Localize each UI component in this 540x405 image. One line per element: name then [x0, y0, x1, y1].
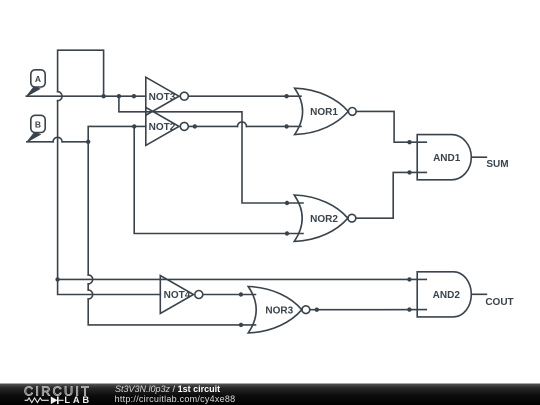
svg-text:NOR1: NOR1	[310, 107, 338, 118]
nor gate NOR2	[294, 195, 348, 241]
wire NOT2 out continue	[247, 125, 302, 127]
svg-text:COUT: COUT	[485, 297, 513, 308]
svg-text:NOT3: NOT3	[149, 92, 176, 103]
svg-text:AND2: AND2	[433, 290, 461, 301]
node AND1 top pin	[407, 140, 411, 144]
inverter NOT4	[160, 276, 193, 314]
node NOR3 bottom pin	[239, 323, 243, 327]
node NOR2 bottom pin	[285, 231, 289, 235]
node NOR1 top pin	[284, 94, 288, 98]
node A lower T junction	[55, 277, 59, 281]
wire hop: vertical x88.2 over y279.4	[88, 275, 93, 284]
gate labels	[149, 92, 514, 316]
logo resistor zigzag	[25, 398, 49, 403]
node NOT2 input pin / B branch	[132, 124, 136, 128]
inverter NOT3	[146, 77, 179, 115]
wire B to NOR2 bottom input	[134, 126, 303, 233]
svg-text:A: A	[35, 74, 41, 84]
logo diode	[51, 397, 58, 405]
input flag B	[27, 115, 45, 142]
wire hop: vertical x57.6 over A wire	[58, 92, 63, 101]
svg-text:LAB: LAB	[64, 395, 92, 405]
svg-text:St3V3N.l0p3z / 1st circuit: St3V3N.l0p3z / 1st circuit	[115, 384, 220, 394]
node NOR3 output	[315, 308, 319, 312]
wire between hops	[87, 284, 89, 290]
wire NOT2 output to NOR1 bottom input (with hop over x242)	[189, 125, 238, 127]
svg-text:NOR3: NOR3	[265, 305, 293, 316]
wire B down branch	[87, 142, 89, 275]
svg-text:NOT2: NOT2	[149, 122, 176, 133]
wire NOR1 output to AND1 top input	[356, 111, 426, 142]
input flag A	[27, 70, 45, 96]
wire NOT4 output to NOR3 top input	[203, 294, 256, 296]
wire A branch down from (118.9,96.2) to y111.8	[119, 96, 303, 203]
node B junction	[86, 140, 90, 144]
wire AND1 output SUM	[471, 156, 486, 158]
wire NOR3 output to AND2 bottom input	[310, 309, 427, 311]
wire A lower branch to AND2 top input	[58, 278, 427, 280]
nor gate NOR1	[295, 88, 349, 134]
node A wire / rect	[101, 94, 105, 98]
node NOT3 input pin	[132, 94, 136, 98]
node AND2 bottom pin	[407, 307, 411, 311]
wire rectangle loop from A wire up over	[58, 50, 104, 96]
svg-text:AND1: AND1	[433, 153, 461, 164]
wire vertical x57.6 down to A lower junction	[57, 101, 59, 280]
inverter NOT2	[146, 107, 179, 145]
wire NOR2 output to AND1 bottom input	[356, 172, 427, 218]
wire NOT3 output to NOR1 top input	[189, 95, 302, 97]
footer bar	[0, 384, 540, 405]
svg-text:NOR2: NOR2	[310, 214, 338, 225]
node NOR3 top pin	[239, 292, 243, 296]
and gate AND1	[417, 135, 471, 180]
wire B continue to junction	[62, 141, 88, 143]
wire hop: NOT2 out over x242	[238, 122, 247, 126]
wire A to NOT4 input	[58, 279, 161, 294]
node NOT2 output	[193, 124, 197, 128]
nor gate NOR3	[248, 287, 302, 333]
wire B up branch to NOT2 input	[88, 126, 146, 141]
wire hop: B wire over vertical x57.6	[53, 137, 62, 142]
node NOR2 top pin	[285, 201, 289, 205]
node NOR1 bottom pin	[284, 124, 288, 128]
wire down to NOR3 bottom input	[88, 299, 255, 325]
svg-text:B: B	[35, 119, 41, 129]
svg-text:SUM: SUM	[486, 159, 508, 170]
wire AND2 output COUT	[471, 293, 486, 295]
wire A input to NOT3	[26, 95, 146, 97]
wire hop: vertical x88.2 over y294.5	[88, 290, 93, 299]
wire B input	[27, 141, 53, 143]
node AND2 top pin	[407, 277, 411, 281]
node A wire / down branch	[117, 94, 121, 98]
and gate AND2	[417, 272, 471, 317]
node AND1 bottom pin	[407, 170, 411, 174]
svg-text:NOT4: NOT4	[164, 290, 191, 301]
svg-text:http://circuitlab.com/cy4xe88: http://circuitlab.com/cy4xe88	[115, 394, 236, 404]
